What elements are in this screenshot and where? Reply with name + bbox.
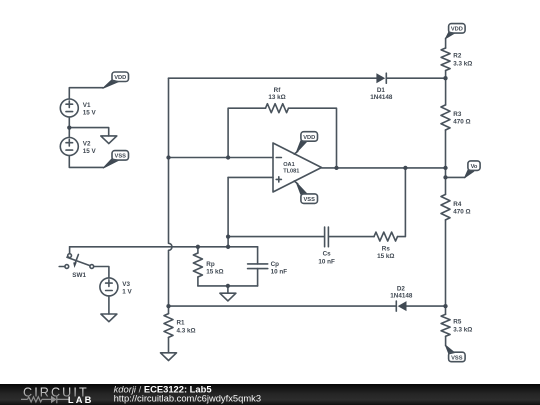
svg-text:15 kΩ: 15 kΩ	[377, 253, 394, 260]
svg-text:10 nF: 10 nF	[318, 258, 335, 265]
svg-text:http://circuitlab.com/c6jwdyfx: http://circuitlab.com/c6jwdyfx5qmk3	[114, 393, 261, 404]
svg-text:V3: V3	[122, 281, 130, 288]
svg-text:R2: R2	[453, 53, 462, 60]
svg-text:VSS: VSS	[115, 154, 127, 160]
svg-text:15 kΩ: 15 kΩ	[206, 269, 223, 276]
svg-text:Cp: Cp	[271, 261, 280, 268]
svg-text:V2: V2	[83, 141, 91, 148]
svg-text:VDD: VDD	[303, 135, 315, 141]
svg-text:15 V: 15 V	[83, 110, 97, 117]
svg-text:R1: R1	[177, 320, 186, 327]
svg-text:R4: R4	[453, 201, 462, 208]
svg-text:VDD: VDD	[114, 75, 126, 81]
svg-text:D1: D1	[377, 87, 386, 94]
svg-text:Cs: Cs	[323, 251, 332, 258]
svg-text:LAB: LAB	[68, 395, 94, 405]
svg-text:13 kΩ: 13 kΩ	[268, 94, 285, 101]
svg-text:VSS: VSS	[304, 197, 316, 203]
svg-text:3.3 kΩ: 3.3 kΩ	[453, 326, 472, 333]
svg-text:3.3 kΩ: 3.3 kΩ	[453, 60, 472, 67]
svg-text:VSS: VSS	[451, 355, 463, 361]
svg-text:R3: R3	[453, 111, 462, 118]
svg-text:470 Ω: 470 Ω	[453, 119, 470, 126]
svg-text:Vo: Vo	[471, 164, 478, 170]
svg-text:V1: V1	[83, 102, 91, 109]
svg-text:1N4148: 1N4148	[390, 293, 413, 300]
svg-text:4.3 kΩ: 4.3 kΩ	[177, 328, 196, 335]
svg-text:TL081: TL081	[283, 168, 299, 174]
svg-text:Rp: Rp	[206, 261, 215, 268]
svg-text:15 V: 15 V	[83, 148, 97, 155]
svg-text:1 V: 1 V	[122, 289, 132, 296]
svg-text:SW1: SW1	[72, 272, 86, 279]
svg-text:OA1: OA1	[283, 162, 295, 168]
svg-text:VDD: VDD	[451, 27, 463, 33]
svg-text:D2: D2	[397, 285, 406, 292]
svg-text:Rf: Rf	[274, 87, 282, 94]
svg-text:1N4148: 1N4148	[370, 94, 393, 101]
svg-text:10 nF: 10 nF	[271, 269, 288, 276]
svg-text:R5: R5	[453, 319, 462, 326]
svg-text:Rs: Rs	[382, 245, 391, 252]
svg-text:470 Ω: 470 Ω	[453, 209, 470, 216]
